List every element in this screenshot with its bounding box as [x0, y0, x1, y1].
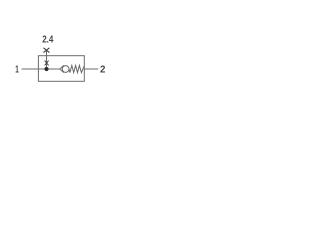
- svg-text:2: 2: [100, 65, 106, 76]
- inner X on pilot line: [45, 61, 49, 66]
- svg-text:2.4: 2.4: [42, 35, 54, 46]
- plugged connection X (top): [44, 48, 50, 53]
- pilot wire vertical: [46, 50, 48, 69]
- valve enclosure box: [38, 56, 84, 82]
- svg-text:1: 1: [15, 65, 19, 76]
- junction dot: [44, 67, 48, 71]
- wire inside box to seat: [38, 68, 60, 70]
- wire port 1 to box: [22, 68, 39, 70]
- spring: [69, 65, 84, 72]
- wire port 2 from box: [84, 68, 98, 70]
- valve seat: [60, 65, 64, 72]
- ball: [62, 66, 69, 73]
